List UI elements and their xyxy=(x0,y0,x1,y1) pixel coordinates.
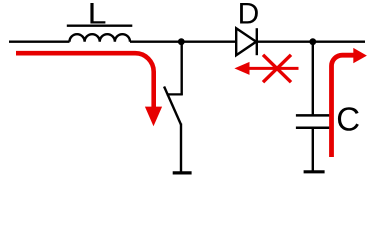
svg-text:D: D xyxy=(238,0,260,30)
svg-text:L: L xyxy=(88,0,107,30)
svg-text:C: C xyxy=(336,101,360,138)
